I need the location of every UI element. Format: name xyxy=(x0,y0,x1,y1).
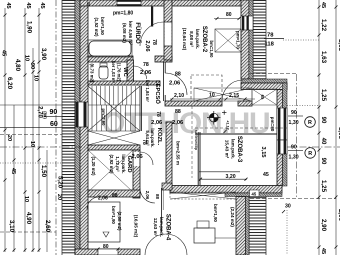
svg-text:SZOBA-3: SZOBA-3 xyxy=(236,136,242,163)
svg-text:6,20: 6,20 xyxy=(6,77,13,90)
level triangle mark xyxy=(103,232,109,237)
svg-text:2,60: 2,60 xyxy=(44,220,51,233)
svg-text:88: 88 xyxy=(155,194,160,199)
door arc bottom-left room xyxy=(87,197,99,209)
svg-text:20: 20 xyxy=(6,135,12,141)
svg-text:88: 88 xyxy=(112,193,118,199)
svg-text:2,06: 2,06 xyxy=(144,40,150,52)
svg-text:2,06: 2,06 xyxy=(132,154,144,160)
outer wall right lower xyxy=(236,197,246,255)
svg-text:ker 1,03 m²: ker 1,03 m² xyxy=(111,61,116,83)
svg-text:(2,24 m2): (2,24 m2) xyxy=(230,207,235,227)
svg-text:3,10: 3,10 xyxy=(8,220,15,233)
door arc szoba-2 xyxy=(222,80,243,101)
svg-text:(1,20 m2): (1,20 m2) xyxy=(91,156,96,176)
svg-text:90: 90 xyxy=(291,145,297,151)
svg-text:8,08 m²: 8,08 m² xyxy=(189,31,194,47)
furniture bottom middle xyxy=(194,228,215,243)
svg-text:10: 10 xyxy=(24,55,30,61)
svg-text:3,15: 3,15 xyxy=(260,147,266,158)
svg-text:1,90: 1,90 xyxy=(26,21,33,34)
door arc wc xyxy=(134,66,147,79)
roof eave band right bottom xyxy=(249,196,266,255)
door furdo 78/2,06 xyxy=(165,22,172,46)
svg-text:lam.park.: lam.park. xyxy=(121,154,126,173)
svg-text:10: 10 xyxy=(209,93,215,99)
svg-text:(0,73 m2): (0,73 m2) xyxy=(90,63,95,83)
dimension lines left margin xyxy=(4,8,6,252)
wall bottom-left room top xyxy=(88,190,140,197)
svg-text:20: 20 xyxy=(56,194,62,200)
svg-text:90: 90 xyxy=(291,110,297,116)
svg-text:80: 80 xyxy=(103,244,109,250)
outer wall top xyxy=(80,0,249,6)
stairs treads lower xyxy=(91,105,93,131)
svg-text:(2,08 m2): (2,08 m2) xyxy=(117,211,122,231)
chimney bar xyxy=(151,7,153,27)
wall furdo/wc divider xyxy=(88,56,133,62)
svg-text:WC: WC xyxy=(122,67,128,77)
svg-text:bm=1,90: bm=1,90 xyxy=(213,204,218,222)
svg-text:(80): (80) xyxy=(43,111,48,119)
svg-text:12,63 m²: 12,63 m² xyxy=(153,218,158,237)
svg-text:78: 78 xyxy=(155,111,161,117)
svg-text:pm=1,70: pm=1,70 xyxy=(236,31,241,49)
wall kozl top xyxy=(165,101,222,106)
bottom-left room inner rect xyxy=(88,202,120,242)
door arc hall xyxy=(165,73,187,95)
outer wall right middle insulation xyxy=(283,83,288,186)
door arcs bottom double xyxy=(145,234,166,255)
kozl/szoba-4 partition xyxy=(161,188,163,232)
svg-text:(1,52 m2): (1,52 m2) xyxy=(94,17,99,37)
svg-text:(10,64 m2): (10,64 m2) xyxy=(182,28,187,51)
svg-text:+1,12: +1,12 xyxy=(226,120,230,130)
svg-text:pm=1,80: pm=1,80 xyxy=(113,11,133,17)
svg-text:ker 4,56 m²: ker 4,56 m² xyxy=(128,21,133,45)
svg-text:90: 90 xyxy=(320,117,326,124)
svg-text:2,06: 2,06 xyxy=(98,196,108,202)
svg-text:78: 78 xyxy=(143,62,149,68)
opening 80 bottom xyxy=(98,249,118,255)
svg-text:78: 78 xyxy=(267,33,274,39)
window left wall 90/60 xyxy=(75,102,88,127)
szoba-3 top line xyxy=(195,133,277,135)
outer wall bottom left xyxy=(75,249,140,255)
szoba-3 dim 3,20 xyxy=(199,171,240,173)
roof eave band left xyxy=(62,0,75,255)
svg-text:szélesedöp: szélesedöp xyxy=(194,130,198,151)
step wall insulation xyxy=(241,79,287,83)
wall kozl top right stub xyxy=(238,101,252,106)
svg-text:2,06: 2,06 xyxy=(151,120,163,126)
window top wall pm=1,80 xyxy=(117,0,141,6)
outer wall left xyxy=(80,0,88,250)
svg-text:1,63: 1,63 xyxy=(320,51,327,64)
gard X zone xyxy=(88,150,133,192)
svg-text:SZOBA-4: SZOBA-4 xyxy=(165,214,171,241)
svg-text:30: 30 xyxy=(285,204,291,210)
svg-text:4,90: 4,90 xyxy=(25,212,32,225)
stairs walking X xyxy=(88,86,140,131)
svg-text:bm=1,90: bm=1,90 xyxy=(209,41,214,59)
window right wall 90/1,30 lower xyxy=(277,140,287,154)
svg-text:40: 40 xyxy=(320,138,326,145)
svg-text:lam.park.: lam.park. xyxy=(159,217,164,237)
svg-text:2,15: 2,15 xyxy=(229,93,239,99)
svg-text:R: R xyxy=(308,151,312,157)
window right wall 80 xyxy=(241,16,253,30)
svg-text:(1,76 m2): (1,76 m2) xyxy=(117,63,122,82)
svg-text:2,70: 2,70 xyxy=(37,106,43,118)
svg-text:15,43 m²: 15,43 m² xyxy=(225,140,230,159)
svg-text:lam.park.: lam.park. xyxy=(231,139,236,159)
svg-text:2,10: 2,10 xyxy=(174,93,184,99)
svg-text:(2,92 m2): (2,92 m2) xyxy=(109,154,114,174)
svg-text:45: 45 xyxy=(320,248,326,254)
under-stair X xyxy=(88,131,140,145)
knee zone X strip right xyxy=(252,89,277,105)
svg-text:1,30: 1,30 xyxy=(289,120,299,126)
svg-text:45: 45 xyxy=(10,168,16,174)
roof eave band right top xyxy=(253,0,266,79)
hall/szoba2 boundary wall xyxy=(163,62,165,101)
svg-text:1,25: 1,25 xyxy=(320,89,327,102)
survey point symbol xyxy=(207,110,227,124)
svg-text:R: R xyxy=(308,120,312,126)
svg-text:1,22: 1,22 xyxy=(320,19,327,32)
svg-text:45: 45 xyxy=(1,50,7,56)
svg-text:1,50: 1,50 xyxy=(40,165,47,178)
door gard xyxy=(134,152,140,166)
left margin horizontals xyxy=(0,104,75,106)
helper lines right xyxy=(250,73,296,75)
svg-text:2,90: 2,90 xyxy=(320,219,327,232)
svg-text:45: 45 xyxy=(263,172,269,178)
svg-text:88: 88 xyxy=(175,109,181,115)
svg-text:bm=1,50: bm=1,50 xyxy=(100,17,105,35)
svg-text:FÜRDŐ: FÜRDŐ xyxy=(134,22,141,44)
svg-text:2,06: 2,06 xyxy=(172,120,184,126)
svg-text:4,80: 4,80 xyxy=(14,59,21,72)
outer wall right upper insulation xyxy=(249,0,253,79)
svg-text:bm=1,90: bm=1,90 xyxy=(111,206,116,224)
outer wall right upper xyxy=(241,0,249,79)
knee zone X strip middle xyxy=(194,88,252,101)
svg-text:45: 45 xyxy=(25,2,31,8)
svg-text:2,06: 2,06 xyxy=(169,81,181,87)
svg-text:45: 45 xyxy=(252,191,257,196)
svg-text:90: 90 xyxy=(29,63,35,69)
svg-text:pm=2,60: pm=2,60 xyxy=(101,109,106,127)
wall szoba-3 bottom xyxy=(170,186,282,194)
svg-text:1,30: 1,30 xyxy=(289,155,299,161)
svg-text:5,20: 5,20 xyxy=(57,176,64,189)
svg-text:1,72 m²: 1,72 m² xyxy=(115,156,120,172)
svg-text:45: 45 xyxy=(5,2,11,8)
dimension lines right margin xyxy=(318,0,320,255)
wall wc right xyxy=(127,60,134,84)
corridor dim line xyxy=(170,98,255,100)
svg-text:90: 90 xyxy=(50,109,58,116)
wall szoba-3 bottom insulation xyxy=(225,193,282,197)
svg-text:bm=2,55 m: bm=2,55 m xyxy=(176,141,181,165)
svg-text:45: 45 xyxy=(320,2,326,8)
wall type label box xyxy=(250,190,260,197)
svg-text:lam.park.: lam.park. xyxy=(195,29,200,49)
svg-text:2,06: 2,06 xyxy=(145,191,150,200)
door szoba-4 from kozl xyxy=(140,188,155,203)
wall kozl east xyxy=(166,122,172,188)
outer wall right lower insulation xyxy=(246,197,250,255)
wall below wc xyxy=(88,81,160,85)
svg-text:2,06: 2,06 xyxy=(140,70,152,76)
svg-text:10: 10 xyxy=(23,196,29,202)
wall furdo/szoba2 xyxy=(164,0,172,60)
svg-text:78: 78 xyxy=(141,139,147,145)
outer wall left insulation xyxy=(75,0,80,250)
step wall east xyxy=(241,83,287,90)
stairs treads upper xyxy=(91,86,93,105)
svg-text:88: 88 xyxy=(175,72,181,78)
svg-text:78: 78 xyxy=(151,39,157,45)
svg-text:45: 45 xyxy=(86,2,91,7)
svg-text:90: 90 xyxy=(320,158,326,165)
svg-text:118: 118 xyxy=(265,42,275,48)
svg-text:OTTHON.HU: OTTHON.HU xyxy=(102,107,270,140)
svg-text:3,90: 3,90 xyxy=(40,48,47,61)
szoba-4 top X strip xyxy=(170,192,236,199)
svg-text:SZOBA-2: SZOBA-2 xyxy=(201,26,207,53)
svg-text:3,20: 3,20 xyxy=(226,174,236,180)
svg-text:pm=80: pm=80 xyxy=(270,117,275,132)
svg-text:LÉPCSŐ: LÉPCSŐ xyxy=(154,80,162,104)
svg-text:60: 60 xyxy=(50,121,58,128)
svg-text:(6,08 m2): (6,08 m2) xyxy=(122,23,127,43)
wall kozl bottom stub xyxy=(162,183,172,190)
dashed skylight rect xyxy=(191,75,222,101)
svg-text:65: 65 xyxy=(260,95,265,100)
svg-text:10: 10 xyxy=(33,75,39,81)
svg-text:45: 45 xyxy=(39,2,45,8)
svg-text:ker 1,84 m²: ker 1,84 m² xyxy=(145,80,150,102)
bathtub xyxy=(89,41,131,56)
window right wall 90/1,30 upper xyxy=(277,108,287,140)
outer wall right middle xyxy=(277,90,283,187)
svg-text:80: 80 xyxy=(226,12,232,18)
szoba-3 left knee wall xyxy=(197,132,199,185)
wc bowl xyxy=(99,66,108,79)
svg-text:(16,95 m2): (16,95 m2) xyxy=(134,215,139,238)
wall gard top xyxy=(88,145,140,150)
svg-text:KÖZL.: KÖZL. xyxy=(156,128,163,146)
wall furdo right stub xyxy=(155,56,172,62)
stairs boundary xyxy=(139,86,141,131)
svg-text:1,25: 1,25 xyxy=(320,180,327,193)
svg-text:10: 10 xyxy=(29,141,35,147)
wall gard right xyxy=(133,150,140,198)
szoba-2 furniture rect xyxy=(215,29,241,52)
